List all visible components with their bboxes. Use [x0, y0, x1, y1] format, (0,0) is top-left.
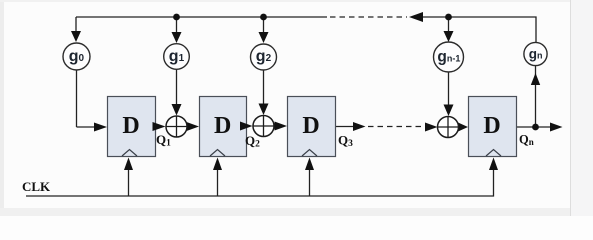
svg-text:D: D	[122, 113, 139, 139]
svg-text:CLK: CLK	[22, 179, 51, 194]
svg-text:D: D	[214, 113, 231, 139]
svg-text:D: D	[302, 113, 319, 139]
svg-text:D: D	[483, 113, 500, 139]
